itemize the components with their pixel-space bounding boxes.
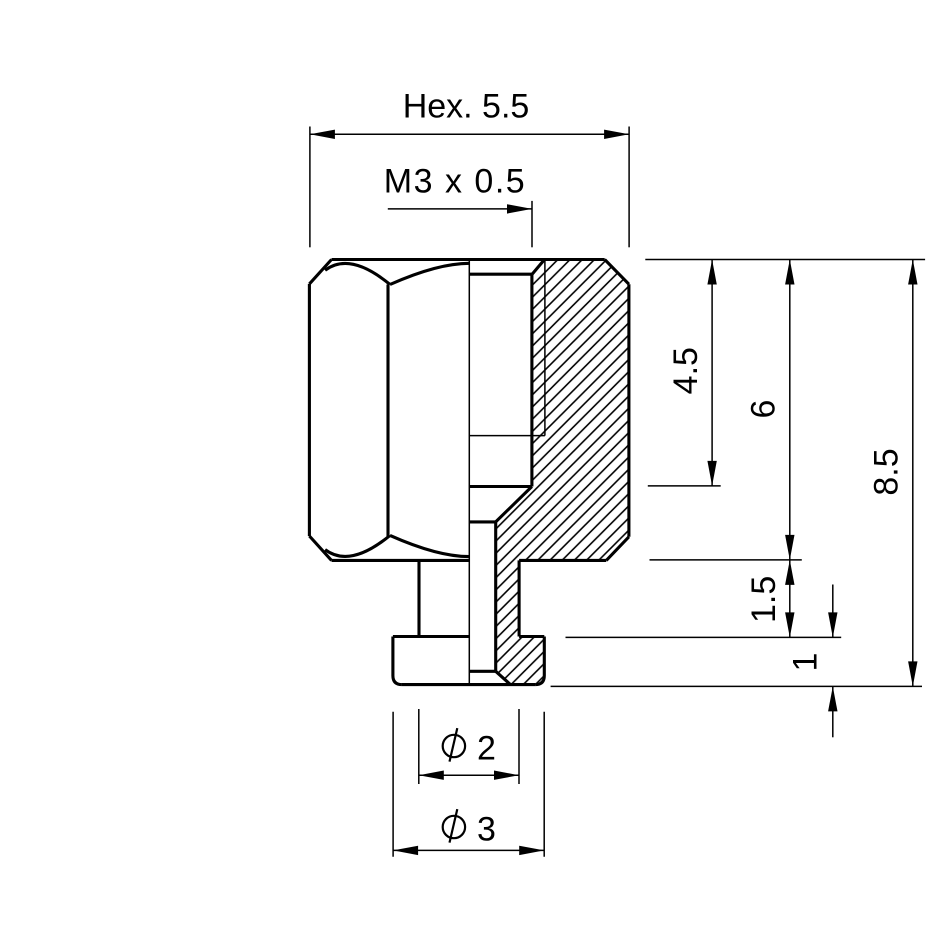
- section axis line: [468, 260, 470, 685]
- dim text phi 3: [443, 816, 465, 838]
- hex corner edge line: [386, 285, 389, 537]
- dim phi2 left extension line: [418, 709, 420, 784]
- flange left edge + corner: [393, 637, 402, 685]
- shank left edge: [417, 560, 420, 636]
- pilot hole right edge: [494, 522, 497, 671]
- top face extension line: [645, 259, 925, 261]
- svg-text:3: 3: [477, 810, 496, 848]
- bottom chamfer arc flat1: [325, 535, 390, 556]
- dim phi3 right extension line: [543, 712, 545, 857]
- dim 6 line: [789, 260, 791, 560]
- hex right edge: [627, 284, 630, 537]
- pilot exit circle line: [469, 670, 495, 673]
- dim 1.5 line: [789, 560, 791, 638]
- hex bottom face right: [519, 559, 606, 562]
- hex top-left chamfer: [309, 260, 331, 284]
- dim 1 lower leader: [832, 686, 834, 737]
- section hatch region: [496, 260, 629, 685]
- dim text phi 2: [443, 735, 465, 757]
- bottom chamfer arc flat2: [390, 535, 469, 556]
- drill cone: [496, 487, 532, 522]
- hex bottom-left chamfer: [309, 536, 331, 560]
- dim Hex 5.5 left extension line: [309, 127, 311, 248]
- dim 1 upper leader: [832, 585, 834, 638]
- hole bottom line: [469, 485, 532, 488]
- dim phi2 line: [419, 774, 519, 776]
- hex bottom-right chamfer: [606, 537, 629, 561]
- dim 8.5 line: [912, 260, 914, 687]
- thread major dia line: [544, 260, 546, 436]
- dim Hex 5.5 right extension line: [628, 127, 630, 248]
- dim phi2 right extension line: [518, 709, 520, 784]
- flange bottom face: [402, 683, 535, 686]
- flange right edge + corner: [535, 637, 544, 685]
- hex left edge: [308, 284, 311, 536]
- dim M3 leader line: [388, 208, 532, 210]
- thread entry chamfer circle line: [469, 273, 532, 276]
- flange top left: [393, 635, 469, 638]
- dim 4.5 bottom extension line: [648, 485, 721, 487]
- top chamfer arc flat2: [390, 263, 469, 284]
- svg-text:4.5: 4.5: [667, 347, 705, 394]
- dim M3 extension line: [531, 201, 533, 247]
- hex bottom extension line: [650, 559, 802, 561]
- dim phi3 left extension line: [392, 712, 394, 857]
- top chamfer arc flat1: [325, 263, 390, 284]
- part bottom extension line: [551, 685, 922, 687]
- thread end line: [469, 435, 545, 437]
- dim 4.5 line: [711, 260, 713, 486]
- svg-text:1.5: 1.5: [745, 576, 783, 623]
- dim phi3 line: [393, 849, 544, 851]
- svg-text:8.5: 8.5: [867, 448, 905, 495]
- svg-text:Hex. 5.5: Hex. 5.5: [403, 88, 530, 126]
- hex bottom face left: [332, 559, 470, 562]
- pilot exit chamfer: [496, 671, 511, 684]
- shank right edge: [518, 560, 521, 636]
- hex body top face: [332, 258, 605, 261]
- svg-text:1: 1: [786, 653, 824, 672]
- flange top extension line: [566, 636, 842, 638]
- svg-text:M3 x 0.5: M3 x 0.5: [384, 163, 526, 201]
- thread entry chamfer cone: [532, 260, 544, 275]
- flange top right: [519, 635, 544, 638]
- thread minor dia line: [530, 274, 533, 486]
- svg-text:6: 6: [744, 400, 782, 419]
- hex top-right chamfer: [605, 260, 629, 285]
- dim Hex 5.5 line: [310, 133, 629, 135]
- pilot hole top circle line: [469, 520, 495, 523]
- svg-text:2: 2: [477, 729, 496, 767]
